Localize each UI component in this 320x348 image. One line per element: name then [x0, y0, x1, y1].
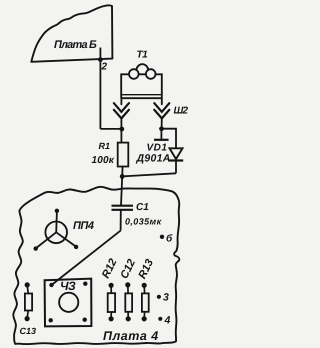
svg-text:100к: 100к	[92, 155, 115, 166]
svg-text:б: б	[166, 234, 173, 245]
svg-text:R1: R1	[99, 141, 111, 151]
terminal 2 stub	[99, 48, 101, 60]
chassis tap stub with bar	[160, 129, 162, 140]
board Плата 4 outline	[13, 187, 179, 344]
board Плата Б outline	[31, 5, 112, 61]
resistor R12	[108, 283, 115, 321]
transformer T1	[121, 64, 162, 98]
wire horizontal to left chevron node	[100, 128, 122, 130]
svg-text:ПП4: ПП4	[73, 220, 94, 232]
module ЧЗ box	[45, 279, 92, 327]
junction node below right pin	[159, 126, 164, 131]
junction node below R1	[120, 174, 125, 179]
svg-text:0,035мк: 0,035мк	[125, 217, 162, 227]
svg-text:2: 2	[101, 62, 108, 73]
junction node below left pin	[119, 127, 124, 132]
capacitor С13	[25, 283, 32, 321]
diode VD1	[169, 148, 183, 173]
wire diagonal C1 to module ЧЗ	[52, 231, 121, 285]
svg-text:Т1: Т1	[137, 50, 149, 61]
node 4	[158, 317, 162, 321]
wire C1 down	[120, 210, 122, 231]
node 3	[157, 295, 161, 299]
svg-text:С1: С1	[136, 202, 149, 213]
svg-text:3: 3	[163, 292, 169, 304]
node б	[160, 235, 164, 239]
resistor R13	[142, 283, 149, 321]
terminal 2 dot	[98, 57, 103, 62]
resistor R1	[118, 143, 129, 167]
wire right node to diode branch	[162, 129, 177, 148]
capacitor C1	[112, 205, 134, 207]
svg-text:Ш2: Ш2	[174, 106, 189, 117]
connector pin arrow left (Ш2)	[114, 98, 129, 142]
svg-text:Плата Б: Плата Б	[54, 39, 97, 51]
wire junction down to C1	[121, 176, 122, 205]
svg-text:4: 4	[164, 315, 171, 327]
connector pin arrow right (Ш2)	[154, 98, 169, 129]
svg-text:Плата 4: Плата 4	[103, 329, 159, 343]
wire from terminal 2 down	[99, 60, 101, 129]
svg-text:Д901А: Д901А	[136, 153, 171, 165]
wire diode bottom to junction	[122, 173, 176, 176]
wire R1 bottom to junction	[121, 167, 123, 177]
capacitor С12	[125, 283, 132, 321]
svg-text:С13: С13	[20, 326, 37, 336]
svg-text:ЧЗ: ЧЗ	[60, 279, 76, 293]
transistor ПП4	[36, 212, 75, 249]
